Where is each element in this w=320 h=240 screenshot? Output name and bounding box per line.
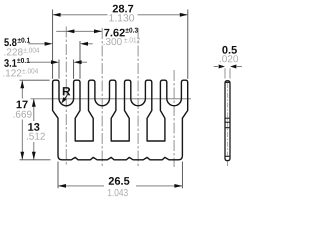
label 3.1 bbox=[4, 59, 16, 67]
label 26.5 bbox=[109, 177, 130, 185]
label 0.5 bbox=[222, 46, 237, 54]
part side view outline bbox=[225, 81, 230, 161]
dim 3.1 line right tail bbox=[80, 61, 87, 63]
part front view outline bbox=[53, 80, 188, 160]
label 5.8 bbox=[4, 38, 16, 46]
label +-.004a bbox=[24, 48, 40, 53]
dim 7.62 line bbox=[56, 30, 102, 32]
label .512 bbox=[27, 133, 45, 140]
node fork2 centerline bbox=[101, 28, 103, 167]
label +-.012 bbox=[124, 37, 140, 42]
wire ext line right edge bbox=[187, 10, 189, 79]
label .300 bbox=[104, 38, 122, 45]
label +-0.1a bbox=[18, 38, 31, 43]
wire ext line slot1 right bbox=[73, 60, 75, 79]
wire ext line 0.5 right bbox=[229, 68, 231, 78]
node side view centerline inner bbox=[227, 83, 229, 156]
node fork1 centerline bbox=[65, 27, 67, 167]
dim 0.5 line left tail bbox=[214, 66, 218, 68]
label +-.004b bbox=[22, 68, 38, 73]
label 17 bbox=[17, 101, 28, 109]
node side view centerline tail bbox=[227, 162, 229, 167]
label 1.130 bbox=[109, 14, 134, 21]
label +-0.1b bbox=[17, 58, 30, 63]
dim 0.5 line right tail bbox=[237, 66, 242, 68]
dim 26.5 line bbox=[58, 185, 104, 187]
wire ext line part bottom bbox=[20, 159, 51, 161]
dim 13 line bbox=[33, 99, 35, 121]
label +-0.3 bbox=[125, 28, 137, 33]
label .228 bbox=[5, 48, 23, 55]
dim 3.1 line left tail bbox=[28, 61, 53, 63]
label 7.62 bbox=[104, 29, 124, 37]
node slot-radius horizontal centerline bbox=[31, 98, 192, 100]
wire ext line slot1 left bbox=[58, 60, 60, 79]
node fork3 centerline bbox=[137, 28, 139, 167]
wire ext line fork1 outer right bbox=[79, 41, 81, 79]
wire side view edge line 2 bbox=[225, 121, 230, 123]
wire ext line 26.5 left bbox=[57, 162, 59, 189]
wire side view edge line 4 bbox=[225, 155, 230, 157]
label .020 bbox=[220, 55, 238, 62]
dim 28.7 line bbox=[53, 14, 108, 16]
label .122 bbox=[3, 69, 21, 76]
label 13 bbox=[28, 123, 39, 131]
wire R leader bbox=[62, 94, 67, 102]
dim 5.8 line right tail bbox=[86, 43, 93, 45]
wire side view edge line 1 bbox=[225, 117, 230, 119]
wire side view top cap bbox=[225, 81, 230, 83]
wire ext line left edge bbox=[52, 10, 54, 79]
wire ext line 0.5 left bbox=[224, 68, 226, 78]
label .669 bbox=[14, 111, 32, 118]
wire ext line part top bbox=[20, 79, 50, 81]
wire side view edge line 3 bbox=[225, 127, 230, 129]
dim 5.8 line left tail bbox=[28, 43, 46, 45]
wire ext line 26.5 right bbox=[181, 162, 183, 189]
label R bbox=[63, 87, 71, 95]
label 28.7 bbox=[113, 5, 134, 13]
dim 17 line bbox=[21, 80, 23, 98]
node fork4 centerline bbox=[173, 70, 175, 167]
label 1.043 bbox=[108, 189, 128, 196]
